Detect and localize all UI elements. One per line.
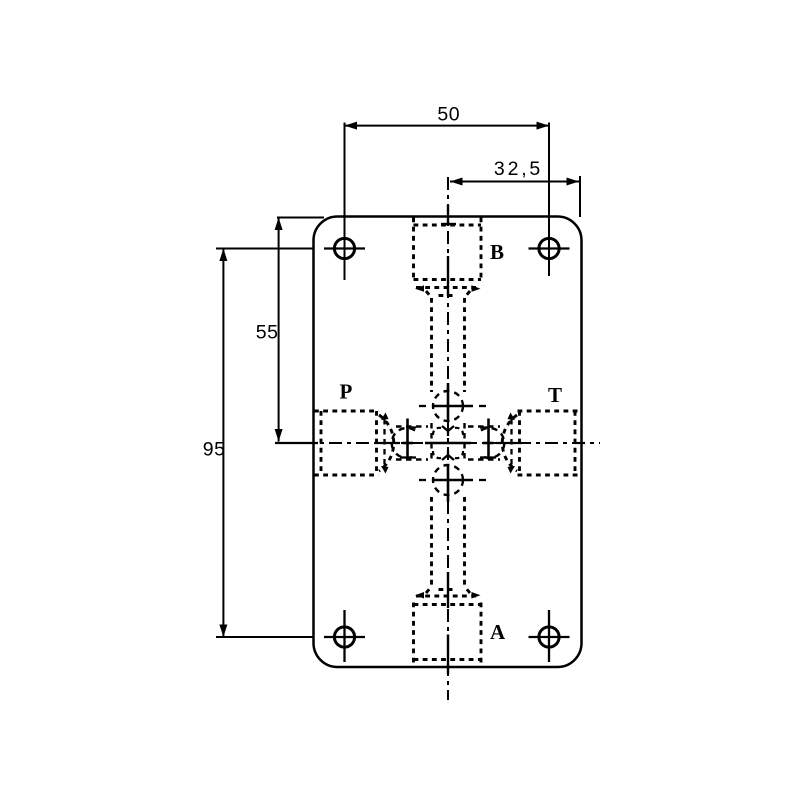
horizontal centerline bbox=[275, 442, 600, 444]
center channel edges bbox=[396, 423, 500, 463]
center bore right bbox=[480, 419, 512, 468]
port A bbox=[414, 497, 482, 667]
dimension 32,5 bbox=[450, 176, 580, 217]
dimension 55 bbox=[277, 218, 324, 442]
svg-text:50: 50 bbox=[437, 104, 460, 126]
svg-text:P: P bbox=[340, 380, 353, 404]
port P bbox=[314, 411, 394, 475]
mounting hole top-right bbox=[529, 238, 570, 258]
mounting hole bottom-left bbox=[324, 610, 365, 662]
plate outline bbox=[314, 217, 582, 668]
mounting hole top-left bbox=[324, 238, 365, 258]
port B taper corner marks bbox=[415, 285, 481, 292]
center bore left bbox=[385, 419, 417, 468]
svg-text:32,5: 32,5 bbox=[494, 158, 543, 180]
port T taper corner marks bbox=[508, 413, 516, 474]
dimension 95 bbox=[216, 249, 314, 638]
svg-text:95: 95 bbox=[203, 439, 226, 461]
vertical centerline bbox=[441, 177, 456, 700]
port B bbox=[414, 218, 482, 393]
svg-text:B: B bbox=[490, 240, 504, 264]
center bore bottom bbox=[419, 464, 486, 502]
center bore hooks bbox=[433, 428, 463, 458]
dimension 50 bbox=[345, 123, 550, 281]
center bore top bbox=[419, 383, 486, 422]
svg-text:T: T bbox=[548, 383, 562, 407]
port T bbox=[502, 411, 582, 475]
port A taper corner marks bbox=[415, 592, 481, 599]
mounting hole bottom-right bbox=[529, 610, 570, 662]
svg-text:55: 55 bbox=[256, 322, 279, 344]
svg-text:A: A bbox=[490, 620, 506, 644]
port P taper corner marks bbox=[381, 413, 389, 474]
center cross junction bbox=[425, 426, 471, 460]
